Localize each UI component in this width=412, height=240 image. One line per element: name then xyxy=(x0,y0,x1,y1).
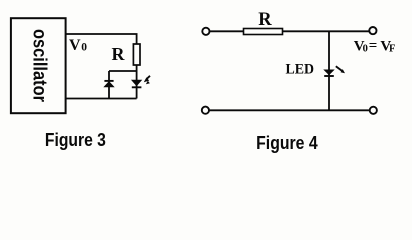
svg-text:R: R xyxy=(112,44,126,64)
oscillator box U1 xyxy=(11,18,66,113)
svg-text:0: 0 xyxy=(81,42,87,54)
svg-text:0: 0 xyxy=(363,43,368,54)
LED light arrow (Figure 4) xyxy=(336,66,345,73)
wire: left diode branch xyxy=(108,71,110,99)
svg-text:Figure 4: Figure 4 xyxy=(256,132,318,153)
terminal top-left (Figure 4) xyxy=(202,28,209,35)
wire V0: oscillator output to resistor R top xyxy=(66,34,137,44)
diode D1 (left, pointing up) xyxy=(104,81,114,87)
terminal bottom-left (Figure 4) xyxy=(202,107,209,114)
svg-text:=: = xyxy=(369,38,378,54)
svg-text:R: R xyxy=(258,10,272,30)
svg-text:oscillator: oscillator xyxy=(28,29,50,102)
wire: bottom rail back to oscillator xyxy=(66,98,137,100)
terminal top-right (Figure 4) xyxy=(369,27,376,34)
svg-text:Figure 3: Figure 3 xyxy=(45,129,106,150)
wire: bottom rail (Figure 4) xyxy=(209,109,370,111)
LED D2 (right, pointing down) xyxy=(132,80,142,87)
wire: resistor R bottom to bottom rail xyxy=(136,65,138,99)
wire: top-left terminal to resistor R xyxy=(210,30,244,32)
wire: resistor R to top-right terminal xyxy=(283,30,370,32)
label V0 = VF xyxy=(354,38,396,55)
resistor R (Figure 3) xyxy=(133,44,140,65)
svg-text:V: V xyxy=(69,37,81,54)
wire: LED branch vertical (Figure 4) xyxy=(328,31,330,110)
LED D3 (Figure 4, pointing down) xyxy=(324,70,334,76)
resistor R (Figure 4) xyxy=(244,29,283,35)
terminal bottom-right (Figure 4) xyxy=(370,107,377,114)
svg-text:LED: LED xyxy=(286,62,315,78)
LED light arrows (Figure 3) xyxy=(144,76,150,85)
wire: top rail of diode pair xyxy=(109,70,137,72)
svg-text:F: F xyxy=(389,44,395,55)
